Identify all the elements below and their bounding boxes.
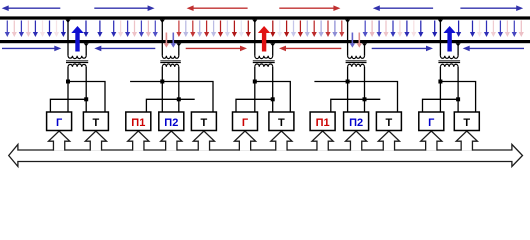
box post 2 feeder П1 [310,112,335,131]
block arrow under substation 2 feeder Т [271,131,292,151]
wire current arrow (top, span 3, rightward) [279,7,334,9]
transformer core of substation 1 [66,60,88,62]
junction on upper bus at substation 3 [438,20,443,23]
wire: right secondary lead of substation 1 [85,67,87,112]
transformer core of sectioning post 1 [160,60,181,62]
wire: lower branch group 1 [50,99,86,112]
transformer secondary winding of substation 3 [440,64,458,67]
transformer secondary winding of sectioning post 2 [348,64,365,67]
rail current arrow (span 5, leftward) [469,47,524,49]
junction dot lower branch group 3 [271,97,275,101]
transformer primary winding of substation 2 [255,56,273,59]
wire: left secondary lead of sectioning post 2 [347,67,349,112]
box substation 2 feeder Т [269,112,294,131]
box post 1 feeder Т [191,112,216,131]
junction dot upper branch group 1 [66,80,70,84]
contact suspension wire (upper bus) [0,16,530,19]
wire: lower-bus lead of sectioning post 1 [178,43,180,56]
box post 1 feeder П1 [126,112,151,131]
wire: lower-bus lead of substation 3 [457,43,459,56]
distributed load current arrows, span 1 [83,21,157,38]
svg-text:Т: Т [201,117,208,129]
wire current arrow (top, span 0, leftward) [8,7,61,9]
transformer secondary winding of substation 2 [255,64,273,67]
svg-text:Г: Г [242,117,249,129]
wire: upper-bus lead of substation 3 [439,20,441,56]
svg-text:Т: Т [278,117,285,129]
junction on upper bus at substation 2 [252,20,257,23]
wire: lower-bus lead of substation 2 [272,43,274,56]
transformer core of sectioning post 2 [346,60,367,62]
transformer primary winding of sectioning post 2 [348,56,365,59]
junction dot upper branch group 3 [253,80,257,84]
wire current arrow (top, span 1, rightward) [94,7,148,9]
wire: upper-bus lead of substation 1 [67,20,69,56]
block arrow under post 1 feeder Т [193,131,214,151]
junction dot lower branch group 2 [177,97,181,101]
wire: upper-bus lead of sectioning post 1 [161,20,163,56]
feeder current big arrow at substation 3 [447,33,451,52]
block arrow under post 2 feeder Т [378,131,399,151]
svg-text:П1: П1 [131,117,145,129]
box substation 3 feeder Г [419,112,444,131]
box substation 2 feeder Г [233,112,258,131]
wire: upper branch group 5 [440,82,475,113]
junction dot lower branch group 1 [84,97,88,101]
wire current arrow (top, span 4, leftward) [379,7,433,9]
rail / return wire (lower bus) [0,40,530,43]
distributed load current arrows, span 4 [363,21,438,38]
wire: upper-bus lead of sectioning post 2 [347,20,349,56]
block arrow under post 1 feeder П1 [128,131,149,151]
wire: right secondary lead of substation 3 [457,67,459,112]
svg-text:Т: Т [463,117,470,129]
wire: right secondary lead of substation 2 [272,67,274,112]
transformer core of substation 3 [438,60,460,62]
junction on upper bus at substation 1 [66,20,71,23]
block arrow under substation 1 feeder Т [85,131,106,151]
junction on lower bus at substation 1 [84,43,89,46]
block arrow under substation 1 feeder Г [49,131,70,151]
wire: upper branch group 2 [130,82,213,113]
rail current arrow (span 3, leftward) [285,47,341,49]
wire: right secondary lead of sectioning post 1 [178,67,180,112]
feeder current big arrow at substation 2 [262,33,266,52]
incoming current arrows at sectioning post 1 [164,33,176,48]
rail current arrow (span 1, leftward) [100,47,155,49]
wire: right secondary lead of sectioning post 2 [364,67,366,112]
block arrow under substation 3 feeder Т [456,131,477,151]
svg-text:П2: П2 [349,117,363,129]
rail current arrow (span 2, rightward) [186,47,241,49]
wire: left secondary lead of substation 2 [254,67,256,112]
wire: left secondary lead of sectioning post 1 [161,67,163,112]
junction dot upper branch group 5 [438,80,442,84]
junction on lower bus at substation 3 [456,43,461,46]
incoming current arrows at sectioning post 2 [350,33,362,48]
wire: lower branch group 4 [331,99,381,112]
wire: lower-bus lead of sectioning post 2 [364,43,366,56]
block arrow under substation 2 feeder Г [234,131,255,151]
wire: left secondary lead of substation 3 [439,67,441,112]
transformer core of substation 2 [253,60,275,62]
distributed load current arrows, span 3 [270,21,344,38]
wire current arrow (top, span 5, rightward) [460,7,517,9]
rail current arrow (span 4, rightward) [372,47,427,49]
box substation 1 feeder Т [83,112,108,131]
box post 2 feeder П2 [344,112,369,131]
block arrow under post 2 feeder П1 [312,131,333,151]
wire: upper-bus lead of substation 2 [254,20,256,56]
transformer primary winding of substation 3 [440,56,458,59]
junction on lower bus at sectioning post 2 [362,43,367,46]
junction on lower bus at substation 2 [270,43,275,46]
distributed load current arrows, span 2 [176,21,251,38]
svg-text:Т: Т [93,117,100,129]
wire: lower branch group 5 [423,99,459,112]
svg-text:П1: П1 [316,117,330,129]
svg-text:Т: Т [386,117,393,129]
wire: lower-bus lead of substation 1 [85,43,87,56]
svg-text:Г: Г [428,117,435,129]
wire current arrow (top, span 2, leftward) [193,7,248,9]
box post 1 feeder П2 [159,112,184,131]
distributed load current arrows, span 0 [5,21,66,38]
wire: left secondary lead of substation 1 [67,67,69,112]
box substation 3 feeder Т [454,112,479,131]
junction on upper bus at sectioning post 1 [160,20,165,23]
feeder current big arrow at substation 1 [75,33,79,52]
junction dot lower branch group 5 [456,97,460,101]
junction on upper bus at sectioning post 2 [345,20,350,23]
junction dot lower branch group 4 [363,97,367,101]
transformer secondary winding of substation 1 [68,64,86,67]
wire: upper branch group 3 [255,82,290,113]
rail current arrow (span 0, rightward) [2,47,55,49]
wire: upper branch group 1 [68,82,105,113]
junction dot upper branch group 2 [160,80,164,84]
wire: lower branch group 3 [236,99,273,112]
box substation 1 feeder Г [47,112,72,131]
distributed load current arrows, span 5 [456,21,524,38]
block arrow under post 2 feeder П2 [346,131,367,151]
junction on lower bus at sectioning post 1 [176,43,181,46]
wire: upper branch group 4 [314,82,397,113]
transformer secondary winding of sectioning post 1 [162,64,179,67]
transformer primary winding of substation 1 [68,56,86,59]
block arrow under substation 3 feeder Г [421,131,442,151]
wire: lower branch group 2 [146,99,194,112]
block arrow under post 1 feeder П2 [161,131,182,151]
svg-text:Г: Г [56,117,63,129]
box post 2 feeder Т [376,112,401,131]
transformer primary winding of sectioning post 1 [162,56,179,59]
svg-text:П2: П2 [164,117,178,129]
rail return line (big double arrow) [9,144,523,166]
junction dot upper branch group 4 [346,80,350,84]
